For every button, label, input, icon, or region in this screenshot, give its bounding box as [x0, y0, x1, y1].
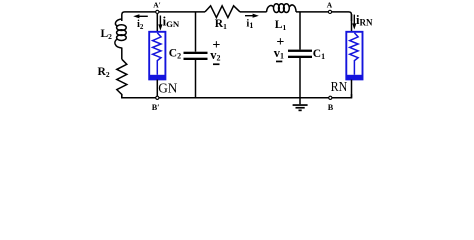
svg-text:A′: A′ [153, 1, 161, 10]
resistor R1 [205, 6, 240, 18]
svg-text:C1: C1 [313, 48, 325, 61]
svg-text:C2: C2 [169, 48, 181, 61]
network RN box [346, 32, 362, 80]
svg-text:L1: L1 [275, 19, 287, 32]
inductor L1 [267, 4, 297, 13]
wire C1 branch top [299, 12, 301, 50]
svg-text:R1: R1 [215, 18, 227, 31]
current arrow i1 [245, 14, 259, 31]
wire top bus [122, 12, 352, 21]
svg-text:iGN: iGN [163, 15, 180, 29]
wire C2 branch top [195, 12, 197, 52]
node A' [153, 1, 161, 14]
node B' [152, 96, 160, 112]
svg-text:B: B [328, 103, 334, 112]
svg-text:i2: i2 [137, 19, 144, 31]
current arrow iGN [158, 15, 180, 31]
ground [293, 104, 308, 111]
svg-text:L2: L2 [101, 28, 113, 41]
node B [328, 96, 334, 112]
svg-text:GN: GN [158, 81, 178, 96]
wire left mid stub [121, 48, 123, 60]
inductor L2 [115, 19, 126, 48]
wire GN branch top [156, 14, 158, 32]
svg-text:iRN: iRN [356, 13, 373, 28]
current arrow i2 [133, 14, 148, 31]
resistor R2 [117, 59, 127, 98]
voltage label v2 [210, 38, 220, 65]
node A [327, 0, 333, 13]
svg-text:R2: R2 [98, 66, 110, 79]
wire RN branch bottom [351, 80, 353, 98]
wire C2 branch bottom [195, 60, 197, 98]
svg-text:RN: RN [331, 80, 348, 95]
svg-text:i1: i1 [246, 18, 253, 30]
voltage label v1 [274, 35, 285, 62]
svg-text:B′: B′ [152, 103, 160, 112]
wire GN branch bottom [156, 80, 158, 98]
wire RN branch top [351, 14, 353, 32]
network GN box [149, 32, 165, 80]
wire bottom bus [122, 94, 352, 98]
capacitor C2 [184, 52, 208, 60]
current arrow iRN [352, 13, 373, 30]
svg-text:A: A [327, 0, 333, 9]
wire C1 branch bottom [299, 58, 301, 104]
capacitor C1 [288, 50, 312, 58]
